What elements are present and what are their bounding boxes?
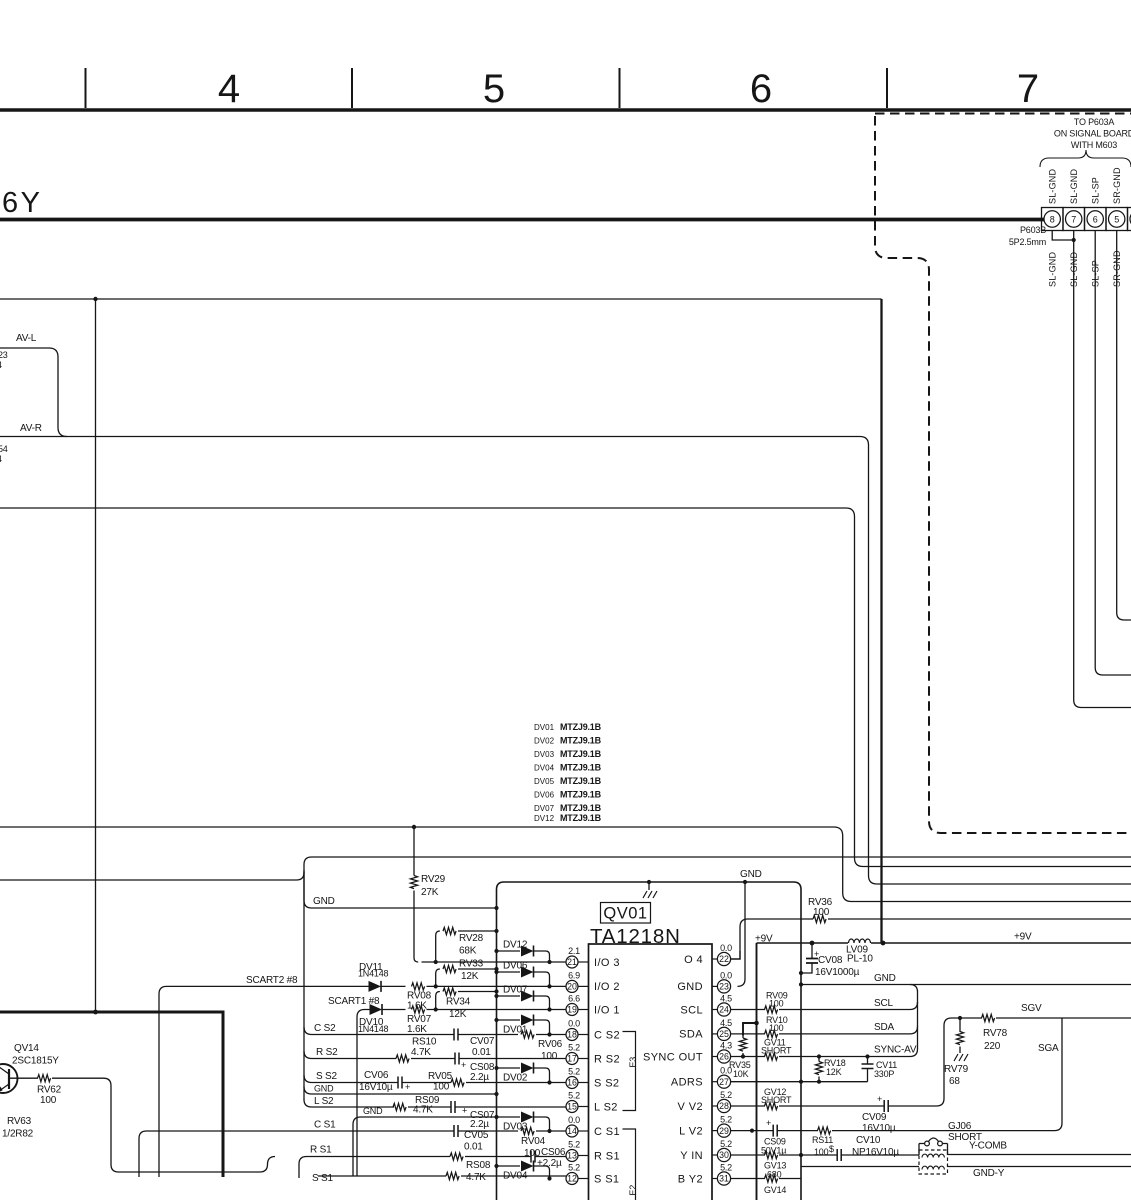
diode DV07 — [494, 994, 498, 998]
svg-text:SL-GND: SL-GND — [1048, 168, 1058, 204]
svg-text:WITH M603: WITH M603 — [1071, 140, 1117, 150]
svg-text:Y-COMB: Y-COMB — [969, 1141, 1007, 1152]
svg-text:20: 20 — [567, 982, 577, 992]
svg-text:RV34: RV34 — [446, 997, 471, 1008]
svg-text:MTZJ9.1B: MTZJ9.1B — [560, 749, 602, 759]
diode DV01 — [494, 1018, 498, 1022]
wire upper horizontal bus with corner to right edge — [0, 827, 1131, 902]
diode DV11 — [369, 981, 382, 992]
wire GND-Y net — [801, 1166, 1131, 1168]
svg-text:30: 30 — [719, 1150, 729, 1160]
svg-text:4: 4 — [0, 360, 2, 370]
svg-text:RS10: RS10 — [412, 1037, 437, 1048]
svg-text:0.0: 0.0 — [720, 970, 732, 980]
svg-text:22: 22 — [719, 954, 729, 964]
svg-text:100: 100 — [40, 1095, 57, 1106]
resistor RV36 — [740, 919, 1131, 951]
diode DV03 — [494, 1115, 498, 1119]
junction — [412, 825, 416, 829]
wire R S2 row — [304, 1051, 566, 1059]
wire L S2 row — [304, 1100, 566, 1108]
wire +9V vertical feed — [756, 943, 758, 1200]
svg-text:CV08: CV08 — [818, 955, 843, 966]
svg-text:SL-GND: SL-GND — [1048, 251, 1058, 287]
wire Y-COMB net — [948, 1154, 1131, 1156]
wire bus line across page — [0, 857, 1131, 880]
wire AV-L stub — [0, 348, 67, 437]
svg-text:RV06: RV06 — [538, 1039, 563, 1050]
svg-text:+: + — [462, 1106, 467, 1116]
svg-text:2.1: 2.1 — [568, 946, 580, 956]
bus merge vertical — [910, 985, 918, 1050]
diode DV10 — [370, 1004, 383, 1015]
svg-text:C S1: C S1 — [594, 1126, 620, 1138]
svg-text:1.6K: 1.6K — [407, 1024, 427, 1035]
pin 30 (Y IN) — [717, 1148, 730, 1161]
diode DV12 — [494, 949, 498, 953]
svg-text:SCL: SCL — [680, 1004, 703, 1016]
svg-text:RV62: RV62 — [37, 1085, 62, 1096]
svg-text:MTZJ9.1B: MTZJ9.1B — [560, 763, 602, 773]
pin 24 (SCL) — [717, 1003, 730, 1016]
svg-text:8: 8 — [1050, 215, 1055, 225]
wire GND S2 row — [304, 1087, 497, 1095]
pin 14 (C S1) — [566, 1125, 578, 1137]
svg-text:5.2: 5.2 — [568, 1043, 580, 1053]
svg-text:17: 17 — [567, 1054, 577, 1064]
capacitor CV08 16V1000u — [801, 943, 812, 973]
svg-text:RV63: RV63 — [7, 1116, 32, 1127]
connector pin 4 (clipped) — [1130, 211, 1131, 227]
svg-text:L V2: L V2 — [679, 1125, 703, 1137]
svg-text:14: 14 — [567, 1126, 577, 1136]
svg-text:SCL: SCL — [874, 998, 893, 1009]
svg-text:7: 7 — [1071, 215, 1076, 225]
wire GND branch to diode rail — [304, 870, 497, 908]
wire GND SCART1 row — [353, 1117, 497, 1176]
svg-text:DV04: DV04 — [534, 764, 555, 773]
svg-text:1/2R82: 1/2R82 — [2, 1129, 34, 1140]
svg-text:RV79: RV79 — [944, 1064, 969, 1075]
junction — [743, 880, 747, 884]
svg-text:SL-GND: SL-GND — [1069, 251, 1079, 287]
svg-text:26: 26 — [719, 1052, 729, 1062]
svg-text:4.5: 4.5 — [720, 1018, 732, 1028]
wire SGV net — [952, 1017, 1131, 1019]
jumper GJ06 SHORT — [925, 1141, 930, 1146]
svg-text:QV01: QV01 — [603, 905, 647, 923]
svg-text:R S1: R S1 — [594, 1150, 620, 1162]
resistor RV28 — [436, 931, 497, 962]
resistor RV33 — [436, 969, 497, 986]
pin 16 (S S2) — [566, 1077, 578, 1089]
svg-text:RV29: RV29 — [421, 874, 446, 885]
svg-text:S S1: S S1 — [594, 1173, 619, 1185]
inductor LV09 PL-10 — [849, 939, 871, 943]
capacitor CV10 NP16V10u — [837, 1149, 841, 1161]
svg-text:S S2: S S2 — [594, 1077, 619, 1089]
svg-text:RV78: RV78 — [983, 1028, 1008, 1039]
transistor label QV01 — [601, 903, 651, 924]
svg-text:DV12: DV12 — [503, 940, 528, 951]
svg-text:I/O 1: I/O 1 — [594, 1004, 620, 1016]
svg-text:12: 12 — [567, 1174, 577, 1184]
svg-text:100: 100 — [433, 1082, 450, 1093]
wire pin 31 row — [731, 1178, 801, 1180]
wire ADRS row — [731, 1081, 868, 1083]
svg-text:CS06: CS06 — [541, 1147, 566, 1158]
svg-text:+: + — [766, 1118, 771, 1128]
wire third audio line across to right edge — [0, 508, 1131, 867]
resistor RV34 — [436, 992, 497, 1010]
svg-text:SHORT: SHORT — [761, 1095, 792, 1105]
svg-text:23: 23 — [0, 350, 8, 360]
node box top rail with corners — [497, 882, 802, 1200]
svg-text:27: 27 — [719, 1077, 729, 1087]
pin 25 (SDA) — [717, 1027, 730, 1040]
svg-text:GND: GND — [677, 981, 703, 993]
svg-text:NP16V10µ: NP16V10µ — [852, 1147, 899, 1158]
svg-text:V V2: V V2 — [678, 1101, 703, 1113]
wire SYNC OUT / SYNC-AV with GV11 — [731, 1049, 918, 1057]
wire S S1 row — [299, 1157, 307, 1179]
svg-text:CV07: CV07 — [470, 1036, 495, 1047]
wire SGA net — [1008, 1018, 1062, 1131]
svg-text:6: 6 — [750, 67, 772, 111]
svg-text:5P2.5mm: 5P2.5mm — [1009, 237, 1046, 247]
wire AV-R across to right edge — [0, 437, 1131, 885]
capacitor CV09 16V10u — [884, 1100, 888, 1112]
svg-text:AV-L: AV-L — [16, 333, 37, 344]
svg-text:SCART2 #8: SCART2 #8 — [246, 975, 298, 986]
wire V V2 row with GV12 and CV09 — [731, 1018, 952, 1106]
svg-text:R S1: R S1 — [310, 1145, 332, 1156]
svg-text:I/O 3: I/O 3 — [594, 957, 620, 969]
svg-text:DV01: DV01 — [534, 723, 555, 732]
svg-text:2.2µ: 2.2µ — [470, 1072, 489, 1083]
wire thick bus to P603B pin 8 — [0, 218, 1044, 222]
svg-text:5.2: 5.2 — [720, 1139, 732, 1149]
wire GND net to right edge — [801, 984, 1131, 986]
border ruler line — [0, 108, 1131, 112]
svg-text:MTZJ9.1B: MTZJ9.1B — [560, 722, 602, 732]
svg-text:P603B: P603B — [1020, 225, 1046, 235]
svg-text:6Y: 6Y — [2, 187, 42, 219]
svg-text:C S1: C S1 — [314, 1120, 336, 1131]
svg-text:L S2: L S2 — [314, 1096, 334, 1107]
svg-text:2.2µ: 2.2µ — [470, 1119, 489, 1130]
svg-text:+: + — [461, 1060, 466, 1070]
svg-text:C S2: C S2 — [594, 1029, 620, 1041]
wire R S1 row — [307, 1156, 567, 1158]
svg-text:GND-Y: GND-Y — [973, 1168, 1005, 1179]
svg-text:7: 7 — [1017, 67, 1039, 111]
connector pin 5 — [1109, 211, 1125, 227]
svg-text:100: 100 — [769, 1023, 784, 1033]
svg-text:MTZJ9.1B: MTZJ9.1B — [560, 776, 602, 786]
power +9V rail — [731, 943, 1131, 959]
svg-text:12K: 12K — [826, 1067, 842, 1077]
svg-text:16V1000µ: 16V1000µ — [815, 967, 860, 978]
wire thick SCART feed bottom-left — [0, 1012, 223, 1177]
op-amp/IC U QV01 TA1218N body — [589, 944, 713, 1200]
svg-text:5.2: 5.2 — [568, 1140, 580, 1150]
wire SCART2 feed — [159, 986, 369, 1177]
svg-text:5.2: 5.2 — [720, 1163, 732, 1173]
svg-text:GJ06: GJ06 — [948, 1121, 972, 1132]
wire S S2 row — [304, 1075, 566, 1083]
svg-text:GND: GND — [740, 869, 762, 880]
svg-text:+2.2µ: +2.2µ — [537, 1158, 562, 1169]
junction — [93, 297, 97, 301]
svg-text:I/O 2: I/O 2 — [594, 981, 620, 993]
svg-text:RS08: RS08 — [466, 1160, 491, 1171]
pin 17 (R S2) — [566, 1053, 578, 1065]
svg-text:23: 23 — [719, 982, 729, 992]
svg-text:4: 4 — [218, 67, 240, 111]
svg-text:E3: E3 — [628, 1057, 638, 1068]
svg-text:DV05: DV05 — [534, 777, 555, 786]
svg-text:4: 4 — [0, 454, 2, 464]
svg-text:4.3: 4.3 — [720, 1041, 732, 1051]
svg-text:CV09: CV09 — [862, 1112, 887, 1123]
svg-text:12K: 12K — [461, 971, 479, 982]
pin 13 (R S1) — [566, 1150, 578, 1162]
svg-text:RV33: RV33 — [459, 959, 484, 970]
resistor RV78 220 — [982, 1014, 995, 1021]
svg-text:6.6: 6.6 — [568, 994, 580, 1004]
wire GND to pin 23 — [738, 882, 746, 986]
resistor RV62 100 — [14, 1078, 275, 1172]
svg-text:27K: 27K — [421, 887, 439, 898]
svg-text:15: 15 — [567, 1102, 577, 1112]
svg-text:5.2: 5.2 — [720, 1115, 732, 1125]
pin 18 (C S2) — [566, 1029, 578, 1041]
svg-text:CV05: CV05 — [464, 1130, 489, 1141]
svg-text:DV03: DV03 — [534, 750, 555, 759]
svg-text:16: 16 — [567, 1078, 577, 1088]
svg-text:16V10µ: 16V10µ — [359, 1082, 393, 1093]
svg-text:GND: GND — [874, 973, 896, 984]
svg-text:100: 100 — [541, 1051, 558, 1062]
pin 26 (SYNC OUT) — [717, 1050, 730, 1063]
svg-text:ADRS: ADRS — [671, 1077, 703, 1089]
svg-text:AV-R: AV-R — [20, 423, 42, 434]
svg-text:0.0: 0.0 — [720, 943, 732, 953]
pin 21 (I/O 3) — [566, 956, 578, 968]
svg-text:220: 220 — [984, 1041, 1001, 1052]
svg-text:SGV: SGV — [1021, 1003, 1042, 1014]
svg-text:O 4: O 4 — [684, 954, 703, 966]
svg-text:C S2: C S2 — [314, 1023, 336, 1034]
svg-text:TO P603A: TO P603A — [1074, 117, 1114, 127]
svg-text:31: 31 — [719, 1174, 729, 1184]
svg-text:100: 100 — [769, 999, 784, 1009]
svg-text:5.2: 5.2 — [568, 1091, 580, 1101]
node bracket E2 — [623, 1129, 636, 1200]
svg-text:10K: 10K — [733, 1069, 749, 1079]
svg-text:R S2: R S2 — [594, 1053, 620, 1065]
svg-text:DV12: DV12 — [534, 814, 555, 823]
svg-text:MTZJ9.1B: MTZJ9.1B — [560, 813, 602, 823]
svg-text:0.0: 0.0 — [568, 1019, 580, 1029]
wire vertical from node at x=95 — [95, 299, 97, 1012]
dashed boundary box left/bottom edge — [875, 116, 1131, 833]
svg-text:25: 25 — [719, 1029, 729, 1039]
ruler tick — [619, 68, 621, 108]
connector pin 7 — [1066, 211, 1082, 227]
diode DV02 — [494, 1066, 498, 1070]
resistor RV07 — [383, 1009, 406, 1011]
svg-text:SL-GND: SL-GND — [1069, 168, 1079, 204]
svg-text:DV06: DV06 — [534, 791, 555, 800]
svg-text:0.01: 0.01 — [464, 1142, 483, 1153]
svg-text:SGA: SGA — [1038, 1043, 1059, 1054]
pin 15 (L S2) — [566, 1101, 578, 1113]
svg-text:5: 5 — [483, 67, 505, 111]
svg-text:12K: 12K — [449, 1009, 467, 1020]
svg-text:SHORT: SHORT — [761, 1046, 792, 1056]
svg-text:1N4148: 1N4148 — [358, 969, 389, 979]
resistor RV06 — [521, 1031, 534, 1038]
wire L V2 row with CS09 RS11 — [731, 1130, 1008, 1132]
svg-text:5: 5 — [1114, 215, 1119, 225]
wire vertical bus (thick) down to +9V rail — [880, 299, 882, 943]
svg-text:2SC1815Y: 2SC1815Y — [12, 1056, 59, 1067]
resistor RS11 100 — [818, 1127, 831, 1134]
svg-text:SL-SP: SL-SP — [1091, 260, 1101, 287]
capacitor CV11 330P — [867, 1057, 869, 1082]
svg-text:18: 18 — [567, 1030, 577, 1040]
wire SDA with pullup RV10 — [731, 1026, 918, 1034]
svg-text:19: 19 — [567, 1005, 577, 1015]
diode DV06 — [494, 970, 498, 974]
resistor RV08 — [382, 985, 406, 987]
ruler tick — [85, 68, 87, 108]
wire pin 6 down and out right — [1095, 231, 1131, 676]
wire C S1 row — [139, 1131, 566, 1177]
svg-text:SR-GND: SR-GND — [1112, 167, 1122, 204]
wire SCL with pullup RV09 — [731, 1002, 918, 1010]
resistor RV18 12K — [815, 1062, 822, 1075]
wire Y IN row with GV13 CV10 — [731, 1154, 919, 1156]
svg-text:CV06: CV06 — [364, 1070, 389, 1081]
svg-text:GND: GND — [314, 1084, 334, 1094]
pin 19 (I/O 1) — [566, 1004, 578, 1016]
svg-text:S S2: S S2 — [316, 1071, 338, 1082]
connector P603B body — [1042, 208, 1064, 231]
svg-text:28: 28 — [719, 1101, 729, 1111]
svg-text:DV07: DV07 — [534, 804, 555, 813]
transistor QV14 2SC1815Y — [0, 1064, 18, 1093]
ruler tick — [886, 68, 888, 108]
svg-text:QV14: QV14 — [14, 1043, 39, 1054]
pin 12 (S S1) — [566, 1173, 578, 1185]
svg-text:0.0: 0.0 — [568, 1115, 580, 1125]
pin 28 (V V2) — [717, 1099, 730, 1112]
svg-text:MTZJ9.1B: MTZJ9.1B — [560, 736, 602, 746]
svg-text:GV14: GV14 — [764, 1185, 786, 1195]
svg-text:4.5: 4.5 — [720, 994, 732, 1004]
pin 23 (GND) — [717, 980, 730, 993]
wire pin 8 jumper to pin 7 — [1052, 231, 1074, 241]
svg-text:R S2: R S2 — [316, 1047, 338, 1058]
svg-text:6: 6 — [1093, 215, 1098, 225]
svg-text:SR-GND: SR-GND — [1112, 250, 1122, 287]
svg-text:4.7K: 4.7K — [411, 1047, 431, 1058]
node bracket E3 — [623, 1032, 636, 1111]
wire pin 5 down and out right — [1117, 231, 1131, 621]
svg-text:4.7K: 4.7K — [413, 1105, 433, 1116]
svg-text:DV02: DV02 — [534, 737, 555, 746]
svg-text:L S2: L S2 — [594, 1101, 618, 1113]
connector pin 8 — [1044, 211, 1060, 227]
resistor RV79 68 with ground — [956, 1032, 963, 1045]
svg-text:B Y2: B Y2 — [678, 1173, 703, 1185]
pin 20 (I/O 2) — [566, 980, 578, 992]
svg-text:5.2: 5.2 — [720, 1090, 732, 1100]
wire SCART1 feed — [357, 1010, 370, 1177]
pin 22 (O 4) — [717, 952, 730, 965]
svg-text:68: 68 — [949, 1076, 960, 1087]
svg-text:+9V: +9V — [1014, 932, 1032, 943]
svg-text:5.2: 5.2 — [568, 1163, 580, 1173]
ground — [648, 882, 650, 890]
brace over connector pins — [1040, 150, 1131, 167]
resistor RV04 — [521, 1127, 534, 1134]
svg-text:CV10: CV10 — [856, 1135, 881, 1146]
svg-text:MTZJ9.1B: MTZJ9.1B — [560, 790, 602, 800]
wire pin 21 row — [422, 961, 567, 963]
svg-text:SYNC OUT: SYNC OUT — [643, 1051, 703, 1063]
ruler tick — [351, 68, 353, 108]
svg-text:+: + — [877, 1094, 882, 1104]
wire S2 feeder bus vertical — [303, 872, 305, 1100]
svg-text:0.01: 0.01 — [472, 1047, 491, 1058]
wire pin 7 down and out right — [1074, 231, 1131, 708]
diode DV04 — [494, 1164, 498, 1168]
svg-text:RV04: RV04 — [521, 1136, 546, 1147]
resistor RV29 — [413, 827, 415, 876]
svg-text:13: 13 — [567, 1151, 577, 1161]
svg-text:100: 100 — [813, 907, 830, 918]
wire C S2 row — [304, 1027, 566, 1035]
svg-text:24: 24 — [719, 1005, 729, 1015]
svg-text:$: $ — [829, 1144, 834, 1154]
junction — [1072, 238, 1076, 242]
svg-text:SYNC-AV: SYNC-AV — [874, 1045, 917, 1056]
svg-text:21: 21 — [567, 957, 577, 967]
svg-text:6.9: 6.9 — [568, 970, 580, 980]
svg-text:SDA: SDA — [679, 1029, 703, 1041]
svg-text:SDA: SDA — [874, 1022, 894, 1033]
svg-text:GND: GND — [313, 896, 335, 907]
svg-text:4.7K: 4.7K — [466, 1172, 486, 1183]
svg-text:1N4148: 1N4148 — [358, 1024, 389, 1034]
svg-text:54: 54 — [0, 444, 8, 454]
svg-text:68K: 68K — [459, 946, 477, 957]
svg-text:ON SIGNAL BOARD: ON SIGNAL BOARD — [1054, 129, 1131, 139]
svg-text:16V10µ: 16V10µ — [862, 1123, 896, 1134]
svg-text:RV28: RV28 — [459, 933, 484, 944]
pin 27 (ADRS) — [717, 1075, 730, 1088]
svg-text:Y IN: Y IN — [680, 1150, 703, 1162]
svg-text:MTZJ9.1B: MTZJ9.1B — [560, 803, 602, 813]
junction — [647, 880, 651, 884]
svg-text:E2: E2 — [628, 1185, 638, 1196]
resistor RV35 10K — [743, 1023, 757, 1036]
connector pin 6 — [1087, 211, 1103, 227]
